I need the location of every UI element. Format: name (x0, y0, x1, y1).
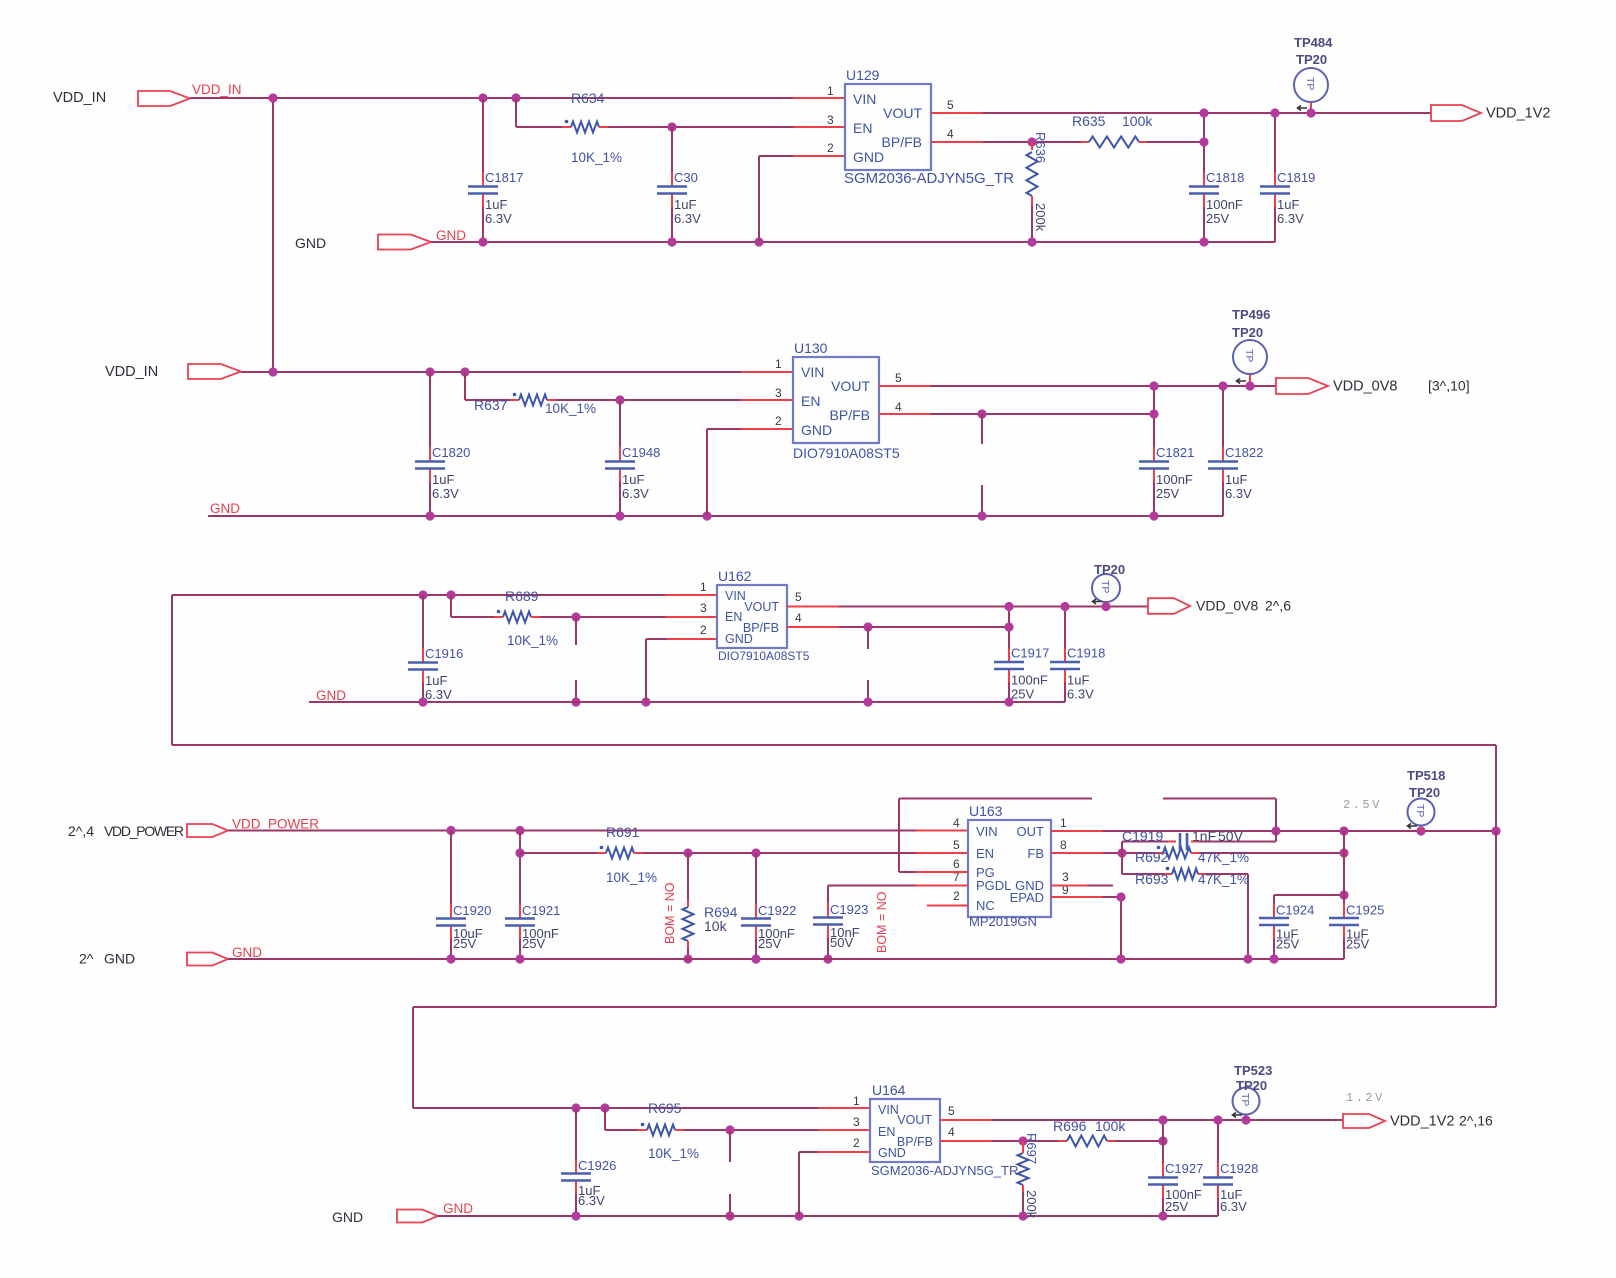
junction (1416, 826, 1425, 835)
op-amp U162 regulator box (717, 585, 787, 648)
svg-text:BP/FB: BP/FB (882, 134, 922, 150)
svg-text:BOM = NO: BOM = NO (875, 891, 889, 953)
svg-text:C1918: C1918 (1067, 646, 1105, 661)
svg-text:VOUT: VOUT (744, 600, 779, 614)
junction (1306, 108, 1315, 117)
svg-text:VIN: VIN (878, 1103, 899, 1117)
junction (418, 697, 427, 706)
svg-text:TP20: TP20 (1236, 1078, 1267, 1093)
svg-text:VDD_IN: VDD_IN (105, 364, 158, 380)
svg-text:25V: 25V (1156, 486, 1179, 501)
junction (1027, 137, 1036, 146)
svg-text:5: 5 (795, 590, 802, 604)
svg-text:GND: GND (232, 945, 262, 960)
wire VOUT net VDD_0V8 2 (787, 606, 839, 608)
port VDD_1V2 output arrow 2 (1343, 1114, 1385, 1128)
svg-text:2: 2 (853, 1136, 860, 1150)
svg-text:VDD_IN: VDD_IN (192, 82, 242, 97)
junction (511, 93, 520, 102)
svg-text:DIO7910A08ST5: DIO7910A08ST5 (793, 445, 900, 461)
svg-text:R634: R634 (571, 90, 605, 106)
svg-text:R689: R689 (505, 588, 539, 604)
svg-text:BP/FB: BP/FB (897, 1135, 933, 1149)
wire main input U162 (172, 594, 665, 596)
resistor R691 (606, 848, 634, 859)
junction (1339, 848, 1348, 857)
svg-text:2^: 2^ (79, 951, 94, 967)
junction (977, 511, 986, 520)
svg-text:1uF: 1uF (1225, 472, 1247, 487)
svg-text:TP20: TP20 (1094, 562, 1125, 577)
svg-text:VOUT: VOUT (883, 105, 922, 121)
svg-text:TP523: TP523 (1234, 1063, 1272, 1078)
svg-text:TP: TP (1239, 1093, 1251, 1106)
svg-text:1uF: 1uF (622, 472, 644, 487)
svg-text:R635: R635 (1072, 113, 1106, 129)
junction (863, 697, 872, 706)
svg-text:C1818: C1818 (1206, 170, 1244, 185)
resistor R693 (1122, 873, 1164, 875)
svg-text:5: 5 (953, 838, 960, 852)
testpoint TP20 section3 (1105, 602, 1107, 607)
svg-text:2^,6: 2^,6 (1265, 598, 1291, 614)
junction (1149, 511, 1158, 520)
wire GND rail (431, 241, 1275, 243)
capacitor C1817 (482, 98, 484, 172)
svg-text:GND: GND (443, 1201, 473, 1216)
junction (1158, 1136, 1167, 1145)
svg-text:47K_1%: 47K_1% (1198, 850, 1249, 865)
resistor R636 vertical (1031, 142, 1033, 150)
svg-text:C1921: C1921 (522, 903, 560, 918)
port VDD_0V8 output arrow 2 (1148, 598, 1190, 614)
wire main VDD_IN horizontal (190, 97, 793, 99)
junction (863, 622, 872, 631)
svg-text:R636: R636 (1033, 132, 1048, 163)
svg-text:C1822: C1822 (1225, 445, 1263, 460)
capacitor C1926 (575, 1108, 577, 1159)
wire FB (1051, 852, 1103, 854)
resistor R634 branch wire (515, 98, 517, 127)
resistor R635 (1081, 141, 1089, 143)
junction (1213, 1115, 1222, 1124)
junction (1218, 381, 1227, 390)
svg-text:2: 2 (827, 141, 834, 155)
junction (418, 590, 427, 599)
svg-text:6.3V: 6.3V (1225, 486, 1252, 501)
wire vertical to section 2 (272, 98, 274, 372)
testpoint TP496 (1249, 374, 1251, 386)
wire input loop from U163 output (171, 595, 173, 745)
junction (1339, 826, 1348, 835)
svg-text:3: 3 (1062, 870, 1069, 884)
svg-text:3: 3 (700, 601, 707, 615)
svg-text:TP: TP (1304, 77, 1316, 90)
wire VOUT net VDD_1V2 2 (940, 1119, 992, 1121)
svg-text:GND: GND (210, 501, 240, 516)
resistor R694 vertical (687, 853, 689, 900)
junction (667, 122, 676, 131)
svg-text:BP/FB: BP/FB (743, 621, 779, 635)
wire dashed EN to GND (575, 617, 577, 645)
svg-text:R691: R691 (606, 824, 640, 840)
svg-text:10K_1%: 10K_1% (648, 1146, 699, 1161)
testpoint TP523 (1245, 1115, 1247, 1121)
svg-text:R637: R637 (474, 397, 508, 413)
port GND arrow (378, 235, 431, 250)
svg-text:DIO7910A08ST5: DIO7910A08ST5 (718, 649, 810, 663)
op-amp U164 regulator box (870, 1099, 940, 1162)
svg-text:TP: TP (1243, 349, 1255, 362)
svg-text:1: 1 (827, 84, 834, 98)
svg-text:VIN: VIN (801, 364, 824, 380)
wire EPAD to GND (1051, 896, 1103, 898)
junction (571, 612, 580, 621)
svg-text:1uF: 1uF (432, 472, 454, 487)
svg-text:GND: GND (332, 1209, 363, 1225)
svg-text:1: 1 (775, 357, 782, 371)
svg-text:C1925: C1925 (1346, 903, 1384, 918)
svg-text:25V: 25V (522, 936, 545, 951)
capacitor C30 (671, 127, 673, 172)
svg-text:100k: 100k (1122, 113, 1153, 129)
junction (683, 954, 692, 963)
wire U164 GND pin2 (818, 1151, 870, 1153)
wire dashed EN to GND 5 (729, 1130, 731, 1162)
junction (515, 848, 524, 857)
port GND arrow 5 (397, 1210, 438, 1223)
junction (751, 848, 760, 857)
junction (1241, 1115, 1250, 1124)
wire dashed BP/FB to GND 3 (867, 627, 869, 649)
junction (571, 1103, 580, 1112)
svg-text:C1928: C1928 (1220, 1161, 1258, 1176)
junction (1271, 826, 1280, 835)
svg-text:NC: NC (976, 898, 995, 913)
svg-text:BOM = NO: BOM = NO (663, 882, 677, 944)
wire FB node to R693 (1121, 853, 1123, 874)
svg-text:6.3V: 6.3V (1220, 1199, 1247, 1214)
svg-text:GND: GND (853, 149, 884, 165)
junction (1060, 602, 1069, 611)
svg-text:6.3V: 6.3V (432, 486, 459, 501)
resistor R634 (571, 122, 599, 133)
junction (1199, 137, 1208, 146)
svg-text:FB: FB (1027, 846, 1044, 861)
wire PGDL to C1923 (916, 885, 968, 887)
junction (571, 697, 580, 706)
capacitor C1919 series horizontal (1121, 842, 1123, 854)
junction (1117, 848, 1126, 857)
wire U162 GND pin2 (667, 638, 717, 640)
svg-text:MP2019GN: MP2019GN (969, 914, 1037, 929)
junction (460, 367, 469, 376)
capacitor C1818 (1203, 113, 1205, 172)
wire PG loop right (1163, 798, 1276, 800)
svg-text:PGDL: PGDL (976, 878, 1011, 893)
junction (977, 409, 986, 418)
junction (1149, 381, 1158, 390)
capacitor C1917 (1008, 607, 1010, 648)
wire VOUT net VDD_0V8 (879, 385, 931, 387)
svg-text:2: 2 (700, 623, 707, 637)
junction (446, 590, 455, 599)
junction (1149, 409, 1158, 418)
junction (1116, 954, 1125, 963)
svg-text:10K_1%: 10K_1% (606, 870, 657, 885)
junction (823, 954, 832, 963)
wire PG loop (916, 871, 968, 873)
svg-text:GND: GND (316, 688, 346, 703)
wire U163 GND pin stub (1051, 885, 1087, 887)
junction (515, 826, 524, 835)
svg-text:C1927: C1927 (1165, 1161, 1203, 1176)
junction (1101, 602, 1110, 611)
junction (1018, 1211, 1027, 1220)
svg-text:25V: 25V (1206, 211, 1229, 226)
junction (268, 93, 277, 102)
junction (1027, 237, 1036, 246)
svg-text:EN: EN (853, 120, 872, 136)
svg-text:U129: U129 (846, 67, 880, 83)
op-amp U163 regulator box (968, 820, 1051, 917)
svg-text:C1820: C1820 (432, 445, 470, 460)
svg-text:25V: 25V (1011, 687, 1034, 702)
junction (1004, 622, 1013, 631)
svg-text:VIN: VIN (976, 824, 998, 839)
junction (1199, 108, 1208, 117)
svg-text:3: 3 (853, 1115, 860, 1129)
capacitor C1916 (422, 595, 424, 648)
svg-text:5: 5 (947, 98, 954, 112)
svg-text:C1924: C1924 (1276, 903, 1314, 918)
svg-text:1.2V: 1.2V (1346, 1091, 1385, 1105)
svg-text:TP: TP (1099, 580, 1111, 593)
svg-text:100nF: 100nF (1206, 197, 1243, 212)
svg-text:1uF: 1uF (1277, 197, 1299, 212)
junction (615, 511, 624, 520)
wire GND rail 2 (208, 515, 1223, 517)
svg-text:C1916: C1916 (425, 646, 463, 661)
port VDD_0V8 output arrow (1276, 378, 1328, 394)
svg-text:4: 4 (795, 611, 802, 625)
svg-text:TP20: TP20 (1296, 52, 1327, 67)
svg-text:1uF: 1uF (1067, 673, 1089, 688)
svg-text:8: 8 (1060, 838, 1067, 852)
svg-text:6.3V: 6.3V (578, 1193, 605, 1208)
svg-text:1nF: 1nF (1192, 828, 1216, 844)
svg-text:4: 4 (953, 816, 960, 830)
svg-text:U130: U130 (794, 340, 828, 356)
wire GND rail 5 (438, 1215, 1218, 1217)
junction (515, 954, 524, 963)
svg-text:6.3V: 6.3V (674, 211, 701, 226)
junction (1270, 108, 1279, 117)
svg-text:TP20: TP20 (1232, 325, 1263, 340)
capacitor C1948 (619, 400, 621, 447)
svg-text:200k: 200k (1033, 203, 1048, 232)
junction (1018, 1136, 1027, 1145)
svg-text:C1917: C1917 (1011, 646, 1049, 661)
wire VOUT net VDD_1V2 (931, 112, 983, 114)
junction (667, 237, 676, 246)
svg-text:VDD_IN: VDD_IN (53, 90, 106, 106)
svg-text:4: 4 (895, 400, 902, 414)
svg-text:[3^,10]: [3^,10] (1428, 378, 1470, 394)
svg-text:R693: R693 (1135, 871, 1169, 887)
junction (446, 826, 455, 835)
junction (702, 511, 711, 520)
resistor R695 branch (604, 1108, 606, 1130)
svg-text:U164: U164 (872, 1082, 906, 1098)
capacitor C1922 (755, 853, 757, 904)
svg-text:100nF: 100nF (1156, 472, 1193, 487)
junction (754, 237, 763, 246)
svg-text:6.3V: 6.3V (425, 687, 452, 702)
junction (478, 237, 487, 246)
port VDD_1V2 output arrow (1431, 105, 1481, 121)
svg-text:C1923: C1923 (830, 902, 868, 917)
port GND arrow 4 (187, 953, 228, 966)
wire U129 GND pin2 (793, 155, 845, 157)
svg-text:EN: EN (801, 393, 820, 409)
junction (1199, 237, 1208, 246)
junction (1116, 892, 1125, 901)
capacitor C1822 (1222, 386, 1224, 447)
svg-text:25V: 25V (758, 936, 781, 951)
svg-text:C1817: C1817 (485, 170, 523, 185)
svg-text:2^,16: 2^,16 (1459, 1113, 1493, 1129)
junction (1158, 1115, 1167, 1124)
svg-text:C1926: C1926 (578, 1158, 616, 1173)
resistor R637 (519, 395, 547, 406)
svg-text:GND: GND (104, 951, 135, 967)
wire BP/FB 2 (879, 413, 931, 415)
svg-text:C1919: C1919 (1122, 828, 1163, 844)
capacitor C1820 (429, 372, 431, 447)
capacitor C1918 (1064, 607, 1066, 648)
resistor R692 (1155, 852, 1163, 854)
svg-text:10K_1%: 10K_1% (571, 150, 622, 165)
svg-text:VIN: VIN (853, 91, 876, 107)
capacitor C1927 (1162, 1120, 1164, 1163)
svg-text:TP518: TP518 (1407, 768, 1445, 783)
svg-text:U162: U162 (718, 568, 752, 584)
svg-text:2^,4: 2^,4 (68, 823, 94, 839)
svg-text:TP: TP (1414, 804, 1426, 817)
wire main input U164 (413, 1107, 818, 1109)
wire BP/FB 3 (787, 626, 839, 628)
svg-text:C1821: C1821 (1156, 445, 1194, 460)
junction (478, 93, 487, 102)
wire GND rail 4 (228, 958, 1344, 960)
svg-text:VIN: VIN (725, 589, 746, 603)
svg-text:GND: GND (436, 228, 466, 243)
wire input loop from U163 output 2 (1495, 831, 1497, 1007)
svg-text:VDD_POWER: VDD_POWER (232, 817, 319, 832)
op-amp U129 regulator box (845, 84, 931, 170)
svg-text:10K_1%: 10K_1% (507, 633, 558, 648)
svg-text:OUT: OUT (1017, 824, 1045, 839)
junction (571, 1211, 580, 1220)
svg-text:6.3V: 6.3V (622, 486, 649, 501)
capacitor C1928 (1217, 1120, 1219, 1163)
svg-text:SGM2036-ADJYN5G_TR: SGM2036-ADJYN5G_TR (871, 1163, 1018, 1178)
junction (615, 395, 624, 404)
resistor R689 branch (450, 595, 452, 617)
svg-text:2: 2 (775, 414, 782, 428)
capacitor C1821 (1153, 386, 1155, 447)
svg-text:R695: R695 (648, 1100, 682, 1116)
junction (425, 367, 434, 376)
junction (1158, 1211, 1167, 1220)
wire main VDD_POWER (228, 830, 916, 832)
wire R634 to EN pin (599, 126, 608, 128)
svg-text:C1948: C1948 (622, 445, 660, 460)
svg-text:25V: 25V (1165, 1199, 1188, 1214)
svg-text:100k: 100k (1095, 1118, 1126, 1134)
svg-text:25V: 25V (453, 936, 476, 951)
junction (1491, 826, 1500, 835)
wire dashed stub BP/FB to GND (981, 414, 983, 444)
svg-text:GND: GND (801, 422, 832, 438)
wire BP/FB (931, 141, 983, 143)
svg-text:VDD_POWER: VDD_POWER (104, 823, 184, 839)
capacitor C1920 (450, 831, 452, 905)
wire main VDD_IN 2 (241, 371, 741, 373)
svg-text:5: 5 (948, 1104, 955, 1118)
svg-text:EPAD: EPAD (1010, 890, 1044, 905)
junction (268, 367, 277, 376)
svg-text:2: 2 (953, 889, 960, 903)
svg-text:EN: EN (725, 610, 742, 624)
capacitor C1819 (1274, 113, 1276, 172)
junction (725, 1125, 734, 1134)
svg-text:2.5V: 2.5V (1343, 798, 1382, 812)
resistor R696 (1058, 1140, 1067, 1142)
testpoint TP518 (1420, 826, 1422, 832)
svg-text:EN: EN (976, 846, 994, 861)
junction (425, 511, 434, 520)
wire C1921 top (519, 831, 521, 854)
svg-text:VOUT: VOUT (831, 378, 870, 394)
wire U130 GND pin2 (741, 428, 793, 430)
port VDD_IN arrow 2 (188, 364, 241, 379)
wire OUT net 2V5 (1051, 830, 1103, 832)
svg-text:4: 4 (947, 127, 954, 141)
svg-text:3: 3 (775, 386, 782, 400)
svg-text:1uF: 1uF (485, 197, 507, 212)
svg-text:6.3V: 6.3V (485, 211, 512, 226)
svg-text:1: 1 (1060, 816, 1067, 830)
svg-text:VDD_0V8: VDD_0V8 (1196, 598, 1258, 614)
junction (794, 1211, 803, 1220)
junction (1269, 954, 1278, 963)
junction (683, 848, 692, 857)
port VDD_IN input arrow (138, 91, 190, 106)
svg-text:10k: 10k (704, 918, 728, 934)
junction (1243, 954, 1252, 963)
svg-text:R696: R696 (1053, 1118, 1087, 1134)
port VDD_POWER arrow (187, 824, 228, 837)
svg-text:3: 3 (827, 113, 834, 127)
junction (725, 1211, 734, 1220)
svg-text:R692: R692 (1135, 849, 1169, 865)
svg-text:5: 5 (895, 371, 902, 385)
capacitor C1924 (1274, 894, 1344, 896)
testpoint TP484 (1310, 102, 1312, 113)
svg-text:C1819: C1819 (1277, 170, 1315, 185)
